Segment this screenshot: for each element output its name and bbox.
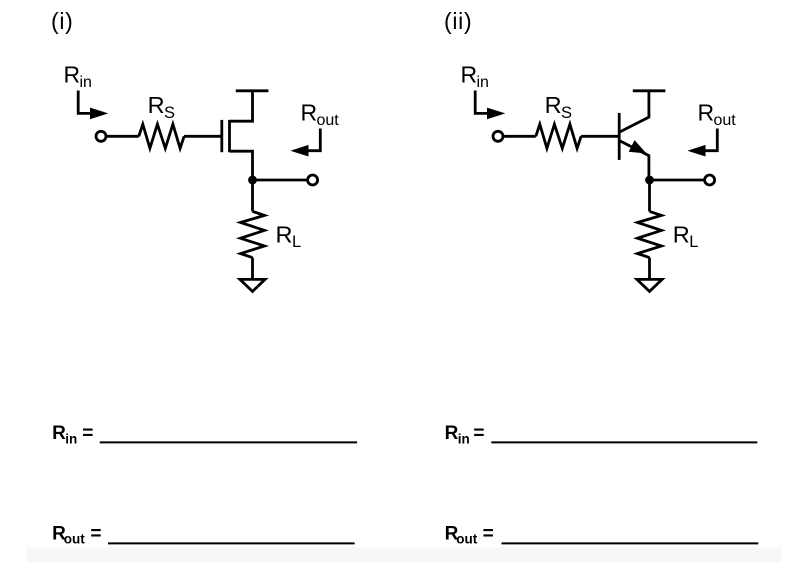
resistor RS (ii) (536, 124, 581, 148)
svg-text:R: R (301, 100, 318, 126)
scrollbar band (decorative) (27, 548, 781, 563)
svg-text:R: R (673, 222, 690, 248)
svg-text:S: S (164, 104, 175, 122)
resistor RL (ii) (638, 211, 662, 257)
answer blank Rout (right) (502, 542, 759, 544)
svg-text:out: out (64, 532, 85, 547)
svg-text:=: = (82, 423, 93, 444)
Rout probe arrow (ii) (687, 129, 717, 157)
node Rin label (i) (64, 62, 92, 92)
RS value label (ii) (545, 92, 572, 122)
Rin probe arrow (ii) (475, 91, 505, 120)
svg-text:out: out (456, 532, 477, 547)
svg-text:R: R (276, 222, 293, 248)
svg-text:R: R (445, 423, 459, 444)
transistor M1 nmos (i) (222, 92, 253, 180)
wire node to RL (ii) (648, 180, 651, 211)
power rail VCC (ii) (633, 89, 666, 92)
svg-text:out: out (317, 112, 340, 129)
svg-text:=: = (90, 524, 101, 545)
answer label Rin = (right) (445, 423, 485, 447)
RL value label (i) (276, 222, 302, 252)
Rin probe arrow (i) (78, 91, 108, 120)
RS value label (i) (148, 92, 175, 122)
wire RL to ground (i) (251, 258, 254, 280)
svg-text:=: = (483, 524, 494, 545)
Rout probe arrow (i) (290, 129, 320, 157)
svg-text:S: S (561, 104, 572, 122)
resistor RS (i) (139, 124, 184, 148)
ground (ii) (637, 279, 662, 291)
answer label Rin = (left) (52, 423, 93, 447)
transistor Q1 npn (ii) (619, 92, 649, 180)
node Rout label (i) (301, 100, 340, 130)
svg-text:in: in (477, 74, 489, 91)
answer label Rout = (left) (52, 524, 101, 547)
wire input to RS (i) (106, 135, 139, 138)
svg-text:=: = (473, 423, 484, 444)
svg-text:in: in (80, 74, 92, 91)
svg-text:in: in (65, 432, 77, 447)
svg-text:out: out (714, 112, 737, 129)
node Rout label (ii) (698, 100, 737, 130)
answer label Rout = (right) (445, 524, 494, 547)
answer blank Rout (left) (108, 542, 355, 544)
svg-text:(ii): (ii) (444, 8, 472, 34)
svg-text:L: L (292, 233, 301, 251)
svg-text:R: R (698, 100, 715, 126)
node Rin label (ii) (461, 62, 489, 92)
power rail VDD (i) (236, 89, 269, 92)
svg-text:in: in (458, 432, 470, 447)
svg-text:R: R (148, 92, 165, 118)
wire node to output terminal (ii) (650, 179, 705, 182)
svg-text:R: R (461, 62, 478, 88)
wire RS to base (ii) (581, 135, 618, 138)
ground (i) (240, 279, 265, 291)
svg-text:L: L (689, 233, 698, 251)
answer blank Rin (left) (100, 441, 357, 443)
output terminal (ii) (705, 175, 715, 185)
resistor RL (i) (241, 211, 265, 257)
svg-text:(i): (i) (51, 8, 74, 34)
RL value label (ii) (673, 222, 699, 252)
wire input to RS (ii) (503, 135, 536, 138)
svg-text:R: R (545, 92, 562, 118)
node output junction (ii) (645, 176, 654, 185)
node output junction (i) (248, 176, 257, 185)
wire RL to ground (ii) (648, 258, 651, 280)
answer blank Rin (right) (491, 441, 757, 443)
wire node to RL (i) (251, 180, 254, 211)
svg-text:R: R (52, 423, 66, 444)
wire RS to gate (i) (184, 135, 221, 138)
svg-text:R: R (64, 62, 81, 88)
input terminal (i) (96, 131, 106, 141)
input terminal (ii) (493, 131, 503, 141)
wire node to output terminal (i) (253, 179, 308, 182)
output terminal (i) (308, 175, 318, 185)
